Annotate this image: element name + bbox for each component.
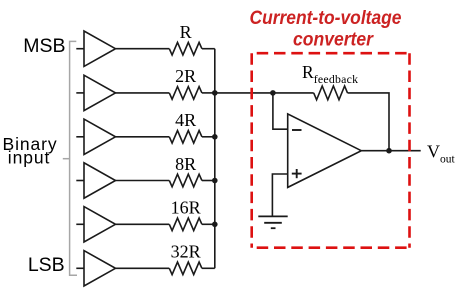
wire op-amp output	[361, 150, 420, 152]
resistor 8R	[169, 174, 202, 187]
buffer amplifier A1	[84, 31, 116, 66]
wire node to inverting input	[273, 93, 288, 129]
wire feedback resistor to output node	[348, 93, 390, 151]
wire resistor 32R to summing bus	[202, 267, 215, 269]
binary input bracket	[63, 41, 77, 275]
svg-text:2R: 2R	[175, 66, 196, 86]
label Current-to-voltage converter title	[250, 8, 402, 50]
node junction on bus at y=92.9	[212, 90, 218, 96]
converter dashed box right edge	[408, 53, 411, 248]
wire resistor 16R to summing bus	[202, 223, 215, 225]
wire buffer A6 output to resistor 32R	[116, 267, 170, 269]
buffer amplifier A2	[84, 75, 116, 110]
resistor 2R	[169, 87, 202, 100]
svg-text:8R: 8R	[175, 154, 196, 174]
svg-text:input: input	[8, 148, 50, 168]
op-amp U1 inverting pin mark -	[292, 129, 302, 131]
svg-text:16R: 16R	[171, 198, 201, 218]
buffer amplifier A4	[84, 163, 116, 198]
wire bus to converter input node	[215, 92, 273, 94]
wire buffer A3 output to resistor 4R	[116, 136, 170, 138]
resistor 32R	[169, 262, 202, 275]
resistor 16R	[169, 218, 202, 231]
wire buffer A2 output to resistor 2R	[116, 92, 170, 94]
ground	[258, 216, 287, 228]
node output junction	[386, 148, 392, 154]
svg-text:MSB: MSB	[23, 35, 65, 57]
wire node to feedback resistor	[273, 92, 314, 94]
node junction on bus at y=180.5	[212, 178, 218, 184]
buffer amplifier A5	[84, 207, 116, 242]
wire resistor R to summing bus	[202, 48, 215, 50]
buffer amplifier A3	[84, 119, 116, 154]
converter dashed box bottom edge	[252, 246, 410, 249]
resistor Rfeedback	[314, 86, 348, 100]
converter dashed box left edge	[250, 53, 253, 248]
svg-text:LSB: LSB	[28, 254, 65, 276]
wire buffer A1 output to resistor R	[116, 48, 170, 50]
wire input stub buffer A4	[76, 180, 84, 182]
node converter input junction	[270, 90, 276, 96]
svg-text:32R: 32R	[171, 242, 201, 262]
svg-text:4R: 4R	[175, 110, 196, 130]
svg-text:R: R	[180, 22, 192, 42]
op-amp U1	[288, 114, 362, 187]
svg-text:converter: converter	[293, 29, 374, 50]
wire input stub buffer A6	[76, 267, 84, 269]
wire input stub buffer A5	[76, 223, 84, 225]
wire buffer A5 output to resistor 16R	[116, 223, 170, 225]
resistor 4R	[169, 131, 202, 144]
wire buffer A4 output to resistor 8R	[116, 180, 170, 182]
svg-text:Current-to-voltage: Current-to-voltage	[250, 8, 402, 29]
buffer amplifier A6	[84, 251, 116, 286]
wire resistor 2R to summing bus	[202, 92, 215, 94]
wire non-inverting input to ground	[272, 174, 287, 216]
wire resistor 8R to summing bus	[202, 180, 215, 182]
wire input stub buffer A3	[76, 136, 84, 138]
op-amp U1 non-inverting pin mark +	[292, 169, 302, 178]
wire input stub buffer A1	[76, 48, 84, 50]
node junction on bus at y=136.8	[212, 134, 218, 140]
wire summing bus vertical	[214, 49, 216, 269]
label Binary input	[3, 134, 58, 168]
node junction on bus at y=224.3	[212, 222, 218, 228]
resistor R	[169, 42, 202, 55]
wire input stub buffer A2	[76, 92, 84, 94]
converter dashed box top edge	[252, 52, 410, 55]
wire resistor 4R to summing bus	[202, 136, 215, 138]
